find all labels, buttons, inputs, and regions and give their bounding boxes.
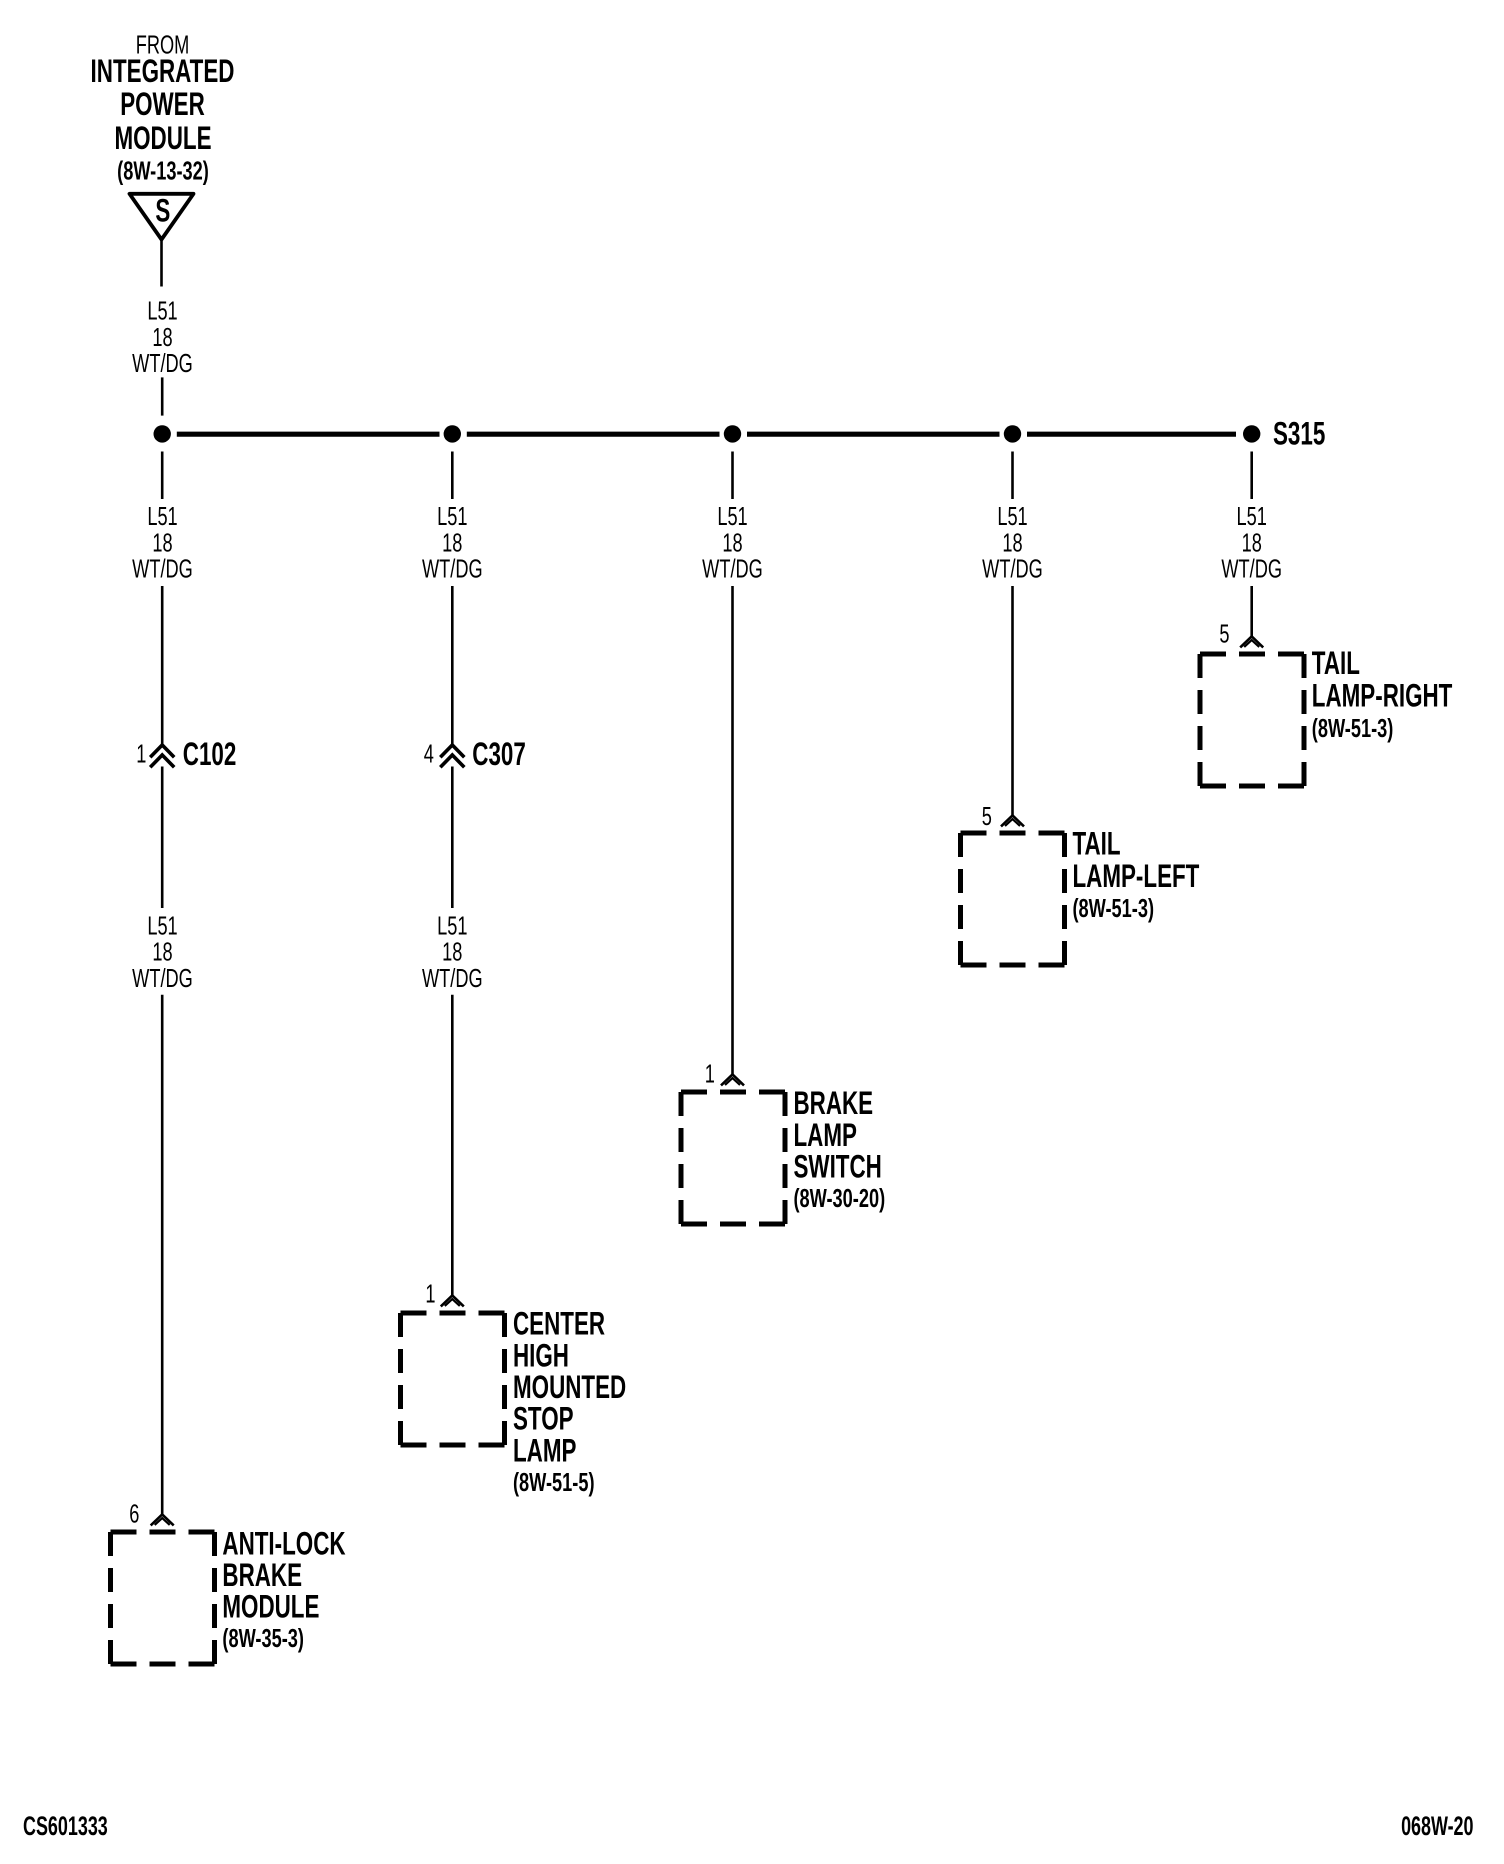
svg-text:WT/DG: WT/DG bbox=[132, 554, 193, 583]
svg-text:(8W-35-3): (8W-35-3) bbox=[222, 1624, 304, 1653]
svg-text:S315: S315 bbox=[1273, 415, 1325, 451]
svg-text:CS601333: CS601333 bbox=[23, 1810, 108, 1841]
wire label L51 18 WT/DG (branch 1 lower) bbox=[132, 911, 193, 993]
svg-text:POWER: POWER bbox=[120, 86, 205, 122]
wire label L51 18 WT/DG (branch 5) bbox=[1221, 502, 1282, 584]
svg-text:L51: L51 bbox=[997, 502, 1027, 531]
pin terminal fork at brake lamp switch bbox=[721, 1074, 744, 1085]
wire branch 4 run to tail lamp left bbox=[1011, 586, 1014, 815]
svg-text:HIGH: HIGH bbox=[513, 1337, 569, 1373]
svg-text:18: 18 bbox=[442, 937, 462, 966]
svg-text:(8W-51-5): (8W-51-5) bbox=[513, 1468, 595, 1497]
component label BRAKE LAMP SWITCH bbox=[794, 1085, 886, 1213]
splice bus segment 3 bbox=[747, 432, 1000, 437]
svg-text:TAIL: TAIL bbox=[1312, 645, 1360, 681]
svg-text:MODULE: MODULE bbox=[222, 1589, 319, 1625]
wire label L51 18 WT/DG (feed wire) bbox=[132, 296, 193, 377]
svg-text:5: 5 bbox=[1219, 620, 1229, 649]
svg-text:WT/DG: WT/DG bbox=[1221, 554, 1282, 583]
junction dot node 2 bbox=[444, 425, 461, 442]
wire branch 5 below splice S315 bbox=[1250, 452, 1253, 500]
component box tail lamp left bbox=[961, 833, 1065, 965]
wire branch 2 from label to connector C307 bbox=[451, 586, 454, 746]
svg-text:LAMP: LAMP bbox=[794, 1117, 857, 1153]
svg-text:WT/DG: WT/DG bbox=[422, 964, 483, 993]
wire branch 3 below node 3 bbox=[731, 452, 734, 500]
component box tail lamp right bbox=[1200, 654, 1304, 786]
junction dot node 1 bbox=[154, 425, 171, 442]
component label TAIL LAMP-RIGHT bbox=[1312, 645, 1453, 743]
wire from label to splice dot 1 bbox=[161, 377, 164, 415]
junction dot node 3 bbox=[724, 425, 741, 442]
svg-text:6: 6 bbox=[129, 1499, 139, 1528]
wire label L51 18 WT/DG (branch 2 upper) bbox=[422, 502, 483, 584]
component label ANTI-LOCK BRAKE MODULE bbox=[222, 1525, 345, 1653]
component box brake lamp switch bbox=[681, 1092, 785, 1224]
splice bus segment 4 bbox=[1027, 432, 1236, 437]
wire label L51 18 WT/DG (branch 1 upper) bbox=[132, 502, 193, 584]
svg-text:18: 18 bbox=[1002, 528, 1022, 557]
svg-text:LAMP-LEFT: LAMP-LEFT bbox=[1073, 858, 1200, 894]
svg-text:1: 1 bbox=[705, 1060, 715, 1089]
pin terminal fork at center high mounted stop lamp bbox=[441, 1295, 464, 1306]
svg-text:068W-20: 068W-20 bbox=[1401, 1810, 1473, 1841]
svg-text:L51: L51 bbox=[147, 296, 177, 325]
wire branch 5 run to tail lamp right bbox=[1250, 586, 1253, 636]
connector C307 double chevron symbol bbox=[440, 745, 464, 767]
wire label L51 18 WT/DG (branch 2 lower) bbox=[422, 911, 483, 993]
svg-text:(8W-30-20): (8W-30-20) bbox=[794, 1184, 886, 1213]
wire label L51 18 WT/DG (branch 3) bbox=[702, 502, 763, 584]
svg-text:(8W-51-3): (8W-51-3) bbox=[1312, 714, 1394, 743]
svg-text:CENTER: CENTER bbox=[513, 1306, 605, 1342]
svg-text:SWITCH: SWITCH bbox=[794, 1149, 882, 1185]
component label TAIL LAMP-LEFT bbox=[1073, 825, 1200, 922]
source triangle S (from integrated power module) bbox=[130, 193, 194, 240]
wire branch 1 from label to connector C102 bbox=[161, 586, 164, 746]
svg-text:(8W-13-32): (8W-13-32) bbox=[117, 156, 209, 185]
component box center high mounted stop lamp bbox=[401, 1313, 505, 1445]
svg-text:LAMP-RIGHT: LAMP-RIGHT bbox=[1312, 677, 1453, 713]
svg-text:C102: C102 bbox=[183, 736, 237, 772]
pin terminal fork at tail lamp left bbox=[1001, 815, 1024, 826]
feed label FROM INTEGRATED POWER MODULE bbox=[91, 30, 235, 185]
svg-text:18: 18 bbox=[152, 323, 172, 352]
svg-text:1: 1 bbox=[136, 739, 146, 768]
svg-text:WT/DG: WT/DG bbox=[702, 554, 763, 583]
wire branch 2 below node 2 bbox=[451, 452, 454, 500]
wire branch 2 run to center high mounted stop lamp bbox=[451, 995, 454, 1296]
svg-text:L51: L51 bbox=[437, 911, 467, 940]
pin terminal fork at anti-lock brake module bbox=[151, 1514, 174, 1525]
svg-text:S: S bbox=[155, 193, 170, 229]
splice bus segment 2 bbox=[467, 432, 720, 437]
svg-text:18: 18 bbox=[1242, 528, 1262, 557]
component label CENTER HIGH MOUNTED STOP LAMP bbox=[513, 1306, 626, 1497]
svg-text:L51: L51 bbox=[1237, 502, 1267, 531]
svg-text:WT/DG: WT/DG bbox=[132, 964, 193, 993]
svg-text:L51: L51 bbox=[437, 502, 467, 531]
svg-text:BRAKE: BRAKE bbox=[222, 1557, 302, 1593]
component box anti-lock brake module bbox=[111, 1532, 215, 1664]
svg-text:WT/DG: WT/DG bbox=[982, 554, 1043, 583]
connector C102 double chevron symbol bbox=[150, 745, 174, 767]
svg-text:MODULE: MODULE bbox=[114, 120, 211, 156]
svg-text:18: 18 bbox=[722, 528, 742, 557]
svg-text:WT/DG: WT/DG bbox=[132, 349, 193, 378]
wire branch 4 below node 4 bbox=[1011, 452, 1014, 500]
svg-text:MOUNTED: MOUNTED bbox=[513, 1369, 626, 1405]
svg-text:L51: L51 bbox=[147, 911, 177, 940]
svg-text:INTEGRATED: INTEGRATED bbox=[91, 53, 235, 89]
svg-text:5: 5 bbox=[982, 802, 992, 831]
svg-text:L51: L51 bbox=[717, 502, 747, 531]
splice bus S315 horizontal wire segment 1 bbox=[177, 432, 440, 437]
svg-text:(8W-51-3): (8W-51-3) bbox=[1073, 894, 1155, 923]
svg-text:STOP: STOP bbox=[513, 1401, 574, 1437]
pin terminal fork at tail lamp right bbox=[1240, 636, 1263, 647]
svg-text:4: 4 bbox=[424, 739, 434, 768]
wire branch 3 run to brake lamp switch bbox=[731, 586, 734, 1074]
wire branch 1 from C102 down bbox=[161, 767, 164, 909]
svg-text:TAIL: TAIL bbox=[1073, 825, 1121, 861]
wire from triangle S to node S315 bus (upper segment) bbox=[160, 241, 163, 287]
svg-text:LAMP: LAMP bbox=[513, 1432, 576, 1468]
splice node S315 dot bbox=[1243, 425, 1260, 442]
svg-text:18: 18 bbox=[152, 528, 172, 557]
wire branch 2 from C307 down bbox=[451, 767, 454, 909]
svg-text:C307: C307 bbox=[472, 736, 526, 772]
svg-text:18: 18 bbox=[152, 937, 172, 966]
wire branch 1 long run to anti-lock brake module bbox=[161, 995, 164, 1515]
svg-text:WT/DG: WT/DG bbox=[422, 554, 483, 583]
wire label L51 18 WT/DG (branch 4) bbox=[982, 502, 1043, 584]
svg-text:BRAKE: BRAKE bbox=[794, 1085, 874, 1121]
svg-text:18: 18 bbox=[442, 528, 462, 557]
svg-text:L51: L51 bbox=[147, 502, 177, 531]
svg-text:1: 1 bbox=[425, 1279, 435, 1308]
junction dot node 4 bbox=[1004, 425, 1021, 442]
svg-text:ANTI-LOCK: ANTI-LOCK bbox=[222, 1525, 345, 1561]
wire branch 1 below node 1 bbox=[161, 452, 164, 500]
